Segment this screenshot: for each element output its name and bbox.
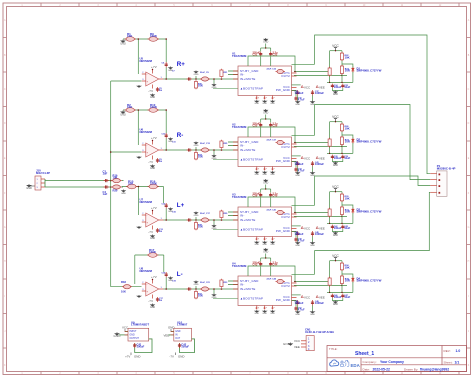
svg-text:XL6C-B-7.92-9P-S-WA: XL6C-B-7.92-9P-S-WA bbox=[305, 330, 334, 334]
svg-text:▲BOOTSTRAP: ▲BOOTSTRAP bbox=[240, 296, 263, 300]
svg-text:IN-: IN- bbox=[240, 282, 245, 286]
wires caps to IC top bbox=[260, 267, 262, 276]
capacitor C42 100uF bbox=[178, 343, 181, 348]
diode D3 SMF4868 bbox=[352, 207, 355, 213]
svg-text:4.7: 4.7 bbox=[255, 307, 259, 310]
ground right of feedback cap bbox=[168, 67, 173, 72]
svg-text:GND: GND bbox=[263, 252, 268, 254]
wire U9 output bbox=[135, 339, 152, 353]
wire net OUT_L+ to P1 pin3 bbox=[315, 176, 431, 205]
svg-text:10K: 10K bbox=[128, 182, 134, 186]
IC bottom pin stubs and grounds bbox=[256, 237, 258, 241]
capacitor C32 2.2uF bbox=[270, 48, 272, 52]
svg-text:+7V: +7V bbox=[151, 65, 157, 69]
svg-text:22uF_C33: 22uF_C33 bbox=[267, 69, 277, 71]
wire op-amp output to IC net L- bbox=[164, 288, 239, 290]
resistor R20 10K to lower rail bbox=[194, 80, 197, 89]
svg-text:22uF_C21: 22uF_C21 bbox=[200, 282, 211, 284]
svg-text:1000uF: 1000uF bbox=[315, 301, 324, 305]
svg-text:100uF: 100uF bbox=[334, 156, 342, 160]
capacitor C36 1000uF bulk bbox=[296, 90, 299, 96]
svg-text:10uF: 10uF bbox=[344, 156, 350, 160]
resistor R18 input L- bbox=[122, 285, 132, 289]
svg-text:100K: 100K bbox=[150, 182, 158, 186]
capacitor C42 at IC lower right bbox=[294, 306, 297, 311]
resistor R36 1K bbox=[328, 277, 331, 287]
wire input bus vertical bbox=[110, 81, 112, 287]
svg-text:GND: GND bbox=[134, 355, 140, 359]
svg-text:OUTPUT: OUTPUT bbox=[130, 338, 140, 340]
net flag VEE bulk bbox=[316, 85, 318, 87]
ground of right circuit bbox=[333, 91, 338, 97]
wire OUT1 net row 4 bbox=[294, 281, 330, 283]
capacitor C39 220uF bbox=[260, 189, 262, 193]
svg-text:10R: 10R bbox=[345, 140, 350, 144]
ground for + input bbox=[138, 226, 141, 228]
svg-text:▲BOOTSTRAP: ▲BOOTSTRAP bbox=[240, 157, 263, 161]
resistor R10 10K bbox=[126, 184, 138, 189]
IC pin names bbox=[240, 69, 290, 92]
svg-text:GND: GND bbox=[150, 97, 155, 99]
ground at input junction bbox=[121, 190, 126, 195]
wire IC to VCC bulk flag bbox=[292, 155, 301, 157]
svg-text:Sheet:: Sheet: bbox=[444, 361, 453, 365]
svg-text:Drawn By:: Drawn By: bbox=[404, 367, 418, 371]
svg-text:VCC: VCC bbox=[304, 226, 310, 230]
ground G11 bbox=[120, 111, 126, 117]
svg-text:IN+/MUTE: IN+/MUTE bbox=[240, 148, 256, 152]
svg-text:OUT: OUT bbox=[175, 338, 180, 340]
ground above output node bbox=[194, 142, 199, 147]
IC right pin stubs bbox=[292, 283, 297, 301]
svg-text:J: J bbox=[4, 331, 5, 333]
net flag VCC bulk bbox=[301, 156, 303, 158]
wire bus to R+ op-amp input bbox=[111, 80, 142, 82]
svg-text:Your Company: Your Company bbox=[380, 360, 404, 364]
svg-text:100K: 100K bbox=[149, 250, 157, 254]
ground bulk cap 1 bbox=[295, 311, 300, 316]
wire OUT2 net row 3 bbox=[294, 215, 347, 217]
svg-text:J: J bbox=[468, 331, 469, 333]
resistor R10 100K bbox=[148, 108, 160, 113]
svg-text:NE5532M: NE5532M bbox=[140, 200, 153, 204]
op-amp U6 NE5532 bbox=[142, 141, 164, 160]
svg-text:VEE: VEE bbox=[319, 226, 325, 230]
resistor R19 10K input 1 bbox=[111, 179, 122, 183]
IC right pin stubs bbox=[292, 73, 297, 91]
wire bootstrap loop over IC net BS1 bbox=[248, 56, 295, 72]
capacitor C31 220uF bbox=[260, 48, 262, 52]
svg-text:MX280C-B-4P: MX280C-B-4P bbox=[437, 167, 456, 171]
svg-text:IN: IN bbox=[175, 335, 178, 337]
capacitor C12 series output bbox=[187, 148, 193, 151]
capacitor C41 1000uF bulk bbox=[311, 161, 314, 167]
svg-text:-: - bbox=[147, 214, 148, 217]
ground bulk cap 1 bbox=[295, 242, 300, 247]
U9 pin stubs bbox=[125, 332, 153, 339]
wire feedback top net R+ bbox=[123, 38, 166, 40]
ground of right circuit bbox=[333, 162, 338, 168]
svg-text:GND: GND bbox=[270, 313, 275, 315]
wire bootstrap loop over IC net BS3 bbox=[248, 197, 295, 213]
svg-text:4.7: 4.7 bbox=[263, 307, 267, 310]
ground right of feedback cap bbox=[168, 277, 173, 282]
resistor R16 100K bbox=[148, 184, 160, 189]
svg-text:10K: 10K bbox=[121, 290, 126, 294]
svg-text:IN-: IN- bbox=[240, 213, 245, 217]
wire OUT2 net row 4 bbox=[294, 284, 347, 286]
svg-text:OUT2: OUT2 bbox=[281, 284, 290, 288]
wire VCC rail bbox=[330, 260, 342, 262]
wire lower rail bbox=[327, 81, 353, 83]
wire VCC rail bbox=[330, 191, 342, 193]
wire VCC rail bbox=[330, 50, 342, 52]
ground bulk cap 2 bbox=[310, 172, 315, 177]
svg-text:22uF_C45: 22uF_C45 bbox=[267, 278, 277, 281]
svg-text:+7V: +7V bbox=[125, 355, 130, 359]
resistor R27 10K bbox=[340, 136, 343, 146]
capacitor C33 22uF inside right bbox=[276, 69, 286, 73]
capacitor C17 22uF coupling bbox=[200, 218, 210, 222]
svg-text:NE5532M: NE5532M bbox=[140, 59, 153, 63]
svg-text:100uF: 100uF bbox=[137, 345, 145, 349]
svg-text:VEE: VEE bbox=[294, 345, 300, 349]
wire VCC rail bbox=[330, 121, 342, 123]
IC right pin stubs bbox=[292, 214, 297, 232]
ground above output node bbox=[194, 281, 199, 286]
ground bulk cap 2 bbox=[310, 242, 315, 247]
wire input channel 2 bbox=[45, 186, 111, 188]
svg-text:1000uF: 1000uF bbox=[295, 91, 304, 95]
svg-text:VCC: VCC bbox=[304, 295, 310, 299]
resistor R9 100K bbox=[148, 37, 160, 42]
capacitor C5 1uF op-amp decoupling bbox=[156, 87, 159, 92]
capacitor C6 feedback bbox=[165, 62, 168, 68]
svg-text:GND: GND bbox=[255, 313, 260, 315]
svg-text:SMF4868_C737YW: SMF4868_C737YW bbox=[357, 69, 382, 73]
svg-text:GND: GND bbox=[270, 103, 275, 105]
svg-text:VEE: VEE bbox=[319, 156, 325, 160]
svg-text:22uF_C13: 22uF_C13 bbox=[200, 143, 211, 145]
svg-text:TDA7266M: TDA7266M bbox=[232, 125, 247, 129]
ground above IC bbox=[263, 248, 268, 254]
connector CN1 KF2EDGR bbox=[306, 336, 314, 351]
svg-text:4.7: 4.7 bbox=[255, 168, 259, 171]
svg-text:GND: GND bbox=[262, 174, 267, 176]
svg-text:+7V: +7V bbox=[151, 275, 157, 279]
svg-text:100uF: 100uF bbox=[334, 85, 342, 89]
svg-text:TITLE:: TITLE: bbox=[329, 347, 338, 351]
wire right divider branch bbox=[341, 51, 343, 83]
capacitor C3 1uF input 1 bbox=[104, 179, 110, 182]
capacitor C13 22uF coupling bbox=[200, 148, 210, 152]
IC pin names bbox=[240, 140, 290, 163]
ground below output wire bbox=[212, 294, 217, 299]
svg-text:100K: 100K bbox=[150, 105, 158, 109]
wire left divider branch bbox=[329, 51, 331, 83]
resistor R33 10R above wire bbox=[220, 279, 223, 288]
ground below output wire bbox=[212, 225, 217, 230]
resistor R1 10K bbox=[125, 37, 137, 42]
wire lower rail bbox=[327, 152, 353, 154]
capacitor C47 10uF bbox=[341, 294, 344, 299]
ground at U9 left bbox=[116, 332, 119, 335]
wire R20 to L+ stage bbox=[121, 186, 123, 189]
svg-text:1u: 1u bbox=[159, 159, 162, 163]
svg-text:VCC: VCC bbox=[304, 156, 310, 160]
svg-text:2022-05-22: 2022-05-22 bbox=[373, 367, 390, 371]
capacitor C44 2.2uF bbox=[270, 258, 272, 262]
svg-text:4.7: 4.7 bbox=[271, 238, 275, 241]
resistor R34 10K bbox=[340, 262, 343, 271]
resistor R28 10K to lower rail bbox=[194, 221, 197, 230]
resistor R22 10K bbox=[340, 52, 343, 61]
svg-text:VEE: VEE bbox=[319, 295, 325, 299]
svg-text:GND: GND bbox=[150, 307, 155, 309]
wire right divider branch bbox=[341, 261, 343, 293]
ground G1 bbox=[120, 40, 126, 46]
svg-text:GND: GND bbox=[333, 304, 338, 306]
svg-text:GND: GND bbox=[263, 42, 268, 44]
ground below op-amp bbox=[150, 94, 155, 100]
svg-text:4.7: 4.7 bbox=[271, 168, 275, 171]
svg-text:▲BOOTSTRAP: ▲BOOTSTRAP bbox=[240, 227, 263, 231]
ground right of feedback cap bbox=[168, 208, 173, 213]
svg-text:INPUT: INPUT bbox=[130, 331, 137, 333]
capacitor C30 at IC lower right bbox=[294, 96, 297, 101]
svg-text:100uF: 100uF bbox=[334, 295, 342, 299]
IC pin names bbox=[240, 279, 290, 302]
ground above output node bbox=[194, 71, 199, 76]
wire IC to VCC bulk flag bbox=[292, 84, 301, 86]
capacitor C49 1000uF bulk bbox=[311, 300, 314, 306]
net flag VEE bulk bbox=[316, 226, 318, 228]
IC right pin stubs bbox=[292, 144, 297, 162]
ground at CN1 bbox=[289, 343, 292, 346]
svg-text:4.7uF: 4.7uF bbox=[298, 98, 305, 102]
wire stubs into IC left pins bbox=[228, 70, 238, 72]
svg-text:R-: R- bbox=[177, 132, 184, 139]
wire IC to VCC bulk flag bbox=[292, 225, 301, 227]
net flag VEE bulk bbox=[316, 295, 318, 297]
svg-text:10R: 10R bbox=[345, 69, 350, 73]
svg-text:22uF_C37: 22uF_C37 bbox=[267, 140, 277, 142]
svg-text:100uF: 100uF bbox=[181, 345, 189, 349]
op-amp U8 NE5532 bbox=[142, 280, 164, 299]
svg-text:GND: GND bbox=[270, 174, 275, 176]
wire bootstrap return to IC bbox=[213, 229, 238, 231]
wire stubs into IC left pins bbox=[228, 141, 238, 143]
svg-text:+7V: +7V bbox=[151, 136, 157, 140]
svg-text:fhuang@lang9992: fhuang@lang9992 bbox=[420, 367, 449, 371]
svg-text:Company:: Company: bbox=[363, 360, 377, 364]
wire caps to ground bbox=[332, 298, 342, 300]
amplifier IC U1 TDA7266M bbox=[238, 66, 292, 96]
svg-text:GND: GND bbox=[194, 74, 199, 76]
svg-text:GND: GND bbox=[295, 314, 300, 316]
amplifier IC U3 TDA7266M bbox=[238, 207, 292, 237]
capacitor C40 1000uF bulk bbox=[296, 161, 299, 167]
wire caps to ground bbox=[332, 159, 342, 161]
svg-text:GND: GND bbox=[255, 244, 260, 246]
svg-text:OUT2: OUT2 bbox=[281, 145, 290, 149]
net flag VCC bulk bbox=[301, 85, 303, 87]
capacitor C35 10uF bbox=[341, 84, 344, 89]
svg-text:22uF_C17: 22uF_C17 bbox=[200, 213, 211, 215]
capacitor C42 100uF bbox=[331, 225, 334, 230]
svg-text:L79M07: L79M07 bbox=[177, 323, 188, 327]
svg-text:TDA7266M: TDA7266M bbox=[232, 54, 247, 58]
svg-text:G: G bbox=[468, 227, 470, 229]
resistor R26 10K bbox=[340, 123, 343, 132]
wire left divider branch bbox=[329, 192, 331, 224]
svg-text:GND: GND bbox=[263, 113, 268, 115]
svg-text:10K: 10K bbox=[127, 34, 133, 38]
svg-text:PW_GND: PW_GND bbox=[276, 88, 290, 92]
wire OUT1 net row 2 bbox=[294, 142, 330, 144]
svg-text:10K: 10K bbox=[198, 84, 203, 88]
wire right divider branch bbox=[341, 192, 343, 224]
resistor R29 10R above wire bbox=[220, 210, 223, 219]
IC bottom pin stubs and grounds bbox=[256, 167, 258, 171]
ground at input connector bbox=[26, 184, 32, 190]
title block frame bbox=[327, 346, 467, 372]
svg-text:GND: GND bbox=[194, 145, 199, 147]
svg-text:4.7: 4.7 bbox=[271, 307, 275, 310]
svg-text:10K: 10K bbox=[113, 176, 118, 180]
svg-text:10K: 10K bbox=[345, 196, 350, 200]
svg-text:GND: GND bbox=[262, 103, 267, 105]
svg-text:GND: GND bbox=[175, 331, 180, 333]
svg-text:GND: GND bbox=[333, 165, 338, 167]
svg-text:GND: GND bbox=[121, 193, 126, 195]
svg-text:IN+/MUTE: IN+/MUTE bbox=[240, 287, 256, 291]
capacitor C40 2.2uF bbox=[270, 189, 272, 193]
wire above IC caps bbox=[261, 118, 271, 120]
capacitor C4 1uF input 2 bbox=[104, 185, 110, 188]
wire OUT1 net row 1 bbox=[294, 71, 330, 73]
ground above IC bbox=[263, 109, 268, 115]
svg-text:GND: GND bbox=[262, 313, 267, 315]
resistor R23 10K bbox=[340, 65, 343, 75]
EasyEDA logo bbox=[330, 360, 361, 368]
regulator U9 L78M07 block bbox=[128, 328, 149, 341]
ground for + input bbox=[138, 156, 141, 158]
capacitor C37 22uF inside right bbox=[276, 140, 286, 144]
svg-text:1uF: 1uF bbox=[103, 172, 108, 176]
wire stubs into IC left pins bbox=[228, 280, 238, 282]
wire IC output to feeder net OUT4 bbox=[292, 273, 315, 275]
svg-text:PW_GND: PW_GND bbox=[276, 159, 290, 163]
capacitor C44 1000uF bulk bbox=[296, 231, 299, 237]
ground below op-amp bbox=[150, 235, 155, 241]
wire caps to ground bbox=[332, 88, 342, 90]
wire IC output to feeder net OUT3 bbox=[292, 204, 315, 206]
wire lower rail bbox=[327, 291, 353, 293]
svg-text:-7V: -7V bbox=[148, 160, 153, 164]
ground bulk cap 2 bbox=[310, 311, 315, 316]
wire OUT2 net row 2 bbox=[294, 145, 347, 147]
svg-text:GND: GND bbox=[255, 103, 260, 105]
wire feedback top net L+ bbox=[122, 186, 164, 188]
wire bus to R- op-amp input bbox=[111, 151, 142, 153]
svg-text:GND: GND bbox=[262, 244, 267, 246]
U10 pin stubs bbox=[171, 332, 195, 339]
power flag VCC row 1 bbox=[332, 44, 339, 51]
svg-text:10uF: 10uF bbox=[344, 226, 350, 230]
svg-text:GND: GND bbox=[194, 284, 199, 286]
svg-text:GND: GND bbox=[295, 104, 300, 106]
capacitor C38 100uF bbox=[331, 155, 334, 160]
svg-text:1/1: 1/1 bbox=[455, 361, 460, 365]
capacitor C37 1000uF bulk bbox=[311, 90, 314, 96]
capacitor C34 100uF bbox=[331, 84, 334, 89]
wire left divider branch bbox=[329, 261, 331, 293]
wire bus to L- op-amp input bbox=[111, 286, 142, 288]
svg-text:22uF_C41: 22uF_C41 bbox=[267, 209, 277, 212]
op-amp U7 NE5532 bbox=[142, 211, 164, 230]
resistor R35 10K bbox=[340, 275, 343, 285]
svg-text:10uF: 10uF bbox=[344, 85, 350, 89]
capacitor C13 1uF op-amp decoupling bbox=[156, 228, 159, 233]
svg-text:1000uF: 1000uF bbox=[315, 91, 324, 95]
wire bootstrap return to IC bbox=[213, 159, 238, 161]
amplifier IC U4 TDA7266M bbox=[238, 276, 292, 306]
svg-text:-: - bbox=[147, 73, 148, 76]
svg-text:1000uF: 1000uF bbox=[315, 162, 324, 166]
ground below output wire bbox=[212, 155, 217, 160]
ground below op-amp bbox=[150, 165, 155, 171]
capacitor C36 2.2uF bbox=[270, 119, 272, 123]
wire op-amp output to IC net L+ bbox=[164, 219, 239, 221]
svg-text:GND: GND bbox=[26, 187, 32, 190]
wire op-amp output to IC net R+ bbox=[164, 78, 239, 80]
svg-text:▲BOOTSTRAP: ▲BOOTSTRAP bbox=[240, 86, 263, 90]
capacitor C35 220uF bbox=[260, 119, 262, 123]
wire net OUT_R- to P1 pin2 bbox=[315, 105, 431, 180]
resistor R21 10R above wire bbox=[220, 69, 223, 78]
svg-text:VCC: VCC bbox=[332, 185, 339, 189]
ground of right circuit bbox=[333, 232, 338, 238]
capacitor C17 1uF op-amp decoupling bbox=[156, 297, 159, 302]
capacitor C38 at IC lower right bbox=[294, 237, 297, 242]
svg-text:R18: R18 bbox=[121, 280, 126, 284]
wire bootstrap loop over IC net BS2 bbox=[248, 127, 295, 143]
svg-text:SMF4868_C737YW: SMF4868_C737YW bbox=[357, 140, 382, 144]
wire net OUT_R+ to P1 pin1 bbox=[315, 35, 431, 174]
P1 pin stubs bbox=[430, 174, 436, 193]
svg-text:REV:: REV: bbox=[444, 349, 451, 353]
resistor R32 10K to lower rail bbox=[194, 290, 197, 299]
op-amp U5 NE5532 bbox=[142, 70, 164, 89]
svg-text:-7V: -7V bbox=[169, 355, 174, 359]
resistor R20 10K input 2 bbox=[111, 185, 122, 189]
svg-text:1000uF: 1000uF bbox=[295, 162, 304, 166]
svg-text:10R: 10R bbox=[345, 279, 350, 283]
svg-text:R20: R20 bbox=[113, 189, 118, 193]
svg-text:-: - bbox=[147, 144, 148, 147]
op-amp pin numbers bbox=[142, 143, 162, 152]
svg-text:4.7: 4.7 bbox=[263, 168, 267, 171]
svg-text:VCC: VCC bbox=[294, 339, 300, 343]
ground for + input bbox=[138, 85, 141, 87]
svg-text:SMF4868_C737YW: SMF4868_C737YW bbox=[357, 210, 382, 214]
wires caps to IC top bbox=[260, 57, 262, 66]
svg-text:GND: GND bbox=[333, 94, 338, 96]
wire U10 output bbox=[180, 339, 195, 353]
svg-text:VCC: VCC bbox=[304, 85, 310, 89]
wire op-amp output to IC net R- bbox=[164, 149, 239, 151]
